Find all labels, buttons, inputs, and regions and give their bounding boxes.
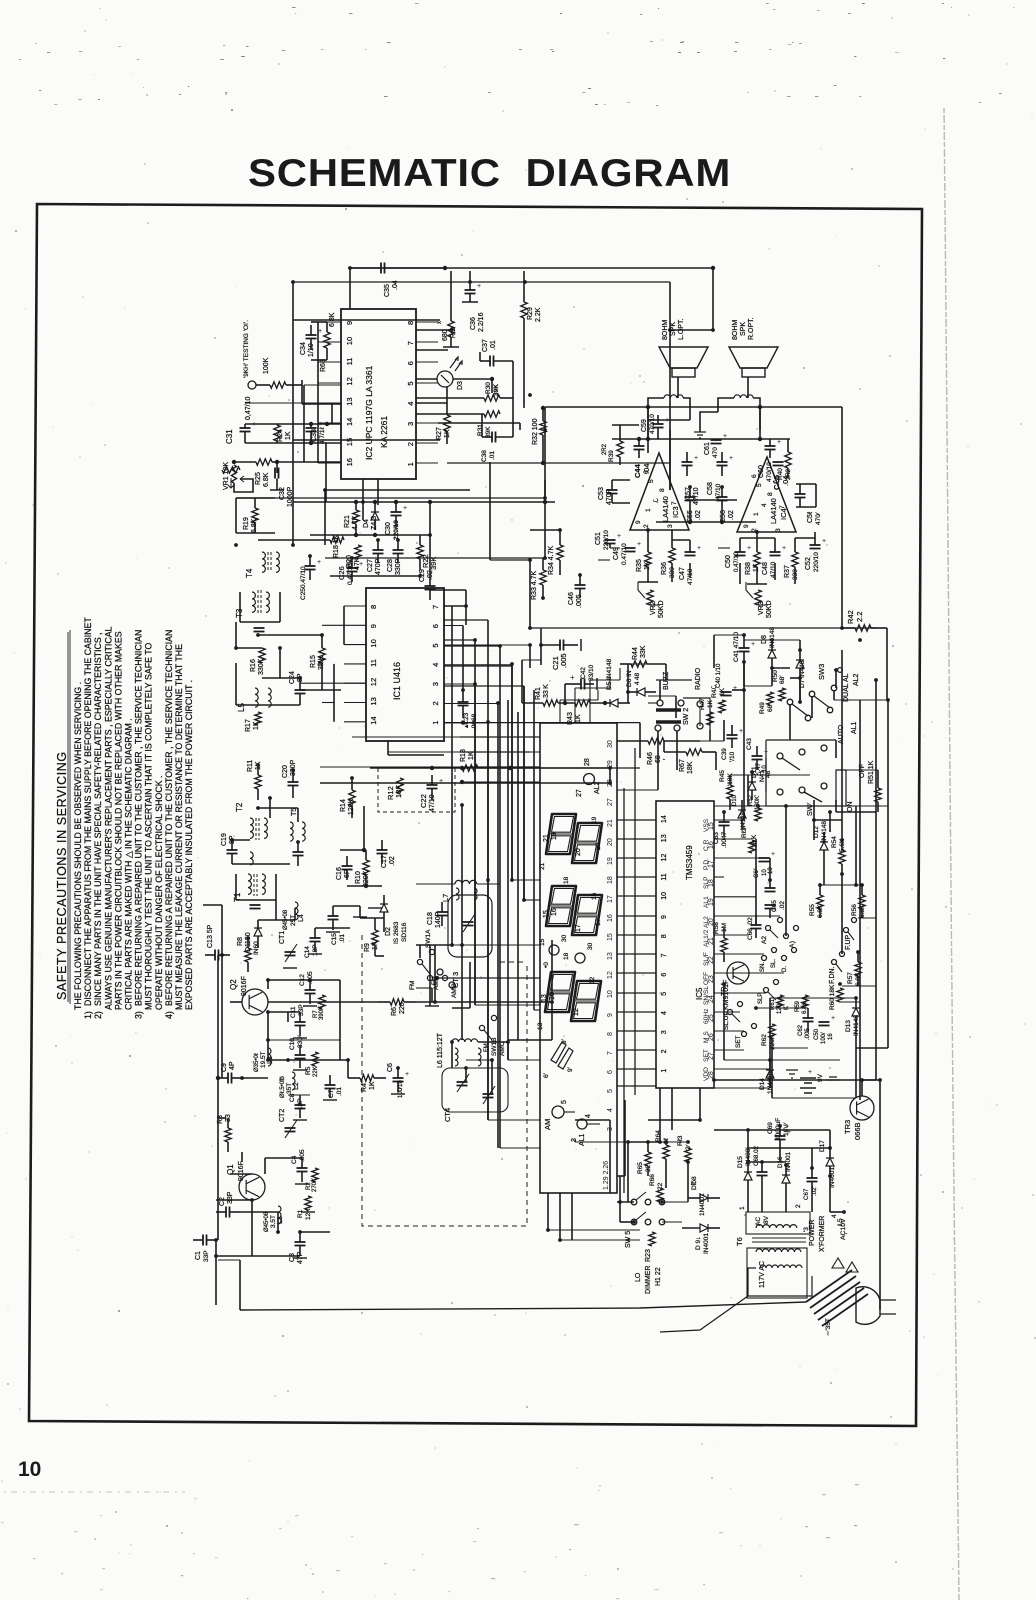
capacitor C69 1000uF <box>775 1135 786 1137</box>
capacitor C13 5P <box>214 950 216 961</box>
svg-text:R13: R13 <box>460 749 467 762</box>
resistor R39 2R2 <box>617 441 623 457</box>
svg-text:R46: R46 <box>647 752 654 765</box>
svg-text:SW3: SW3 <box>817 664 826 680</box>
transistor TR3 066B <box>850 1096 874 1120</box>
wire c41 rail <box>714 634 744 636</box>
svg-text:FM: FM <box>409 981 416 990</box>
resistor R20 47K <box>355 545 361 559</box>
svg-text:ℒ: ℒ <box>652 498 660 503</box>
resistor R16 330K <box>259 648 265 663</box>
svg-text:13: 13 <box>607 952 614 960</box>
resistor R33 4.7K <box>540 570 546 585</box>
svg-text:C60: C60 <box>758 465 765 478</box>
capacitor C36 2.2/16 <box>465 289 476 291</box>
ground speaker return <box>694 432 706 438</box>
capacitor C1 33P <box>202 1235 204 1246</box>
wire left col bottom <box>221 940 223 1078</box>
wire front-end rails <box>293 501 555 503</box>
svg-text:R29: R29 <box>527 307 534 320</box>
resistor R41 33K <box>543 700 558 706</box>
wire clock right mesh <box>714 819 744 821</box>
wire lo dimmer feed <box>619 1176 621 1222</box>
svg-text:.0047: .0047 <box>721 831 728 848</box>
capacitor C54 470P <box>795 493 806 495</box>
svg-text:C16: C16 <box>336 867 343 880</box>
svg-text:330P: 330P <box>290 759 297 776</box>
wire alarm rail top <box>530 627 842 629</box>
svg-text:15: 15 <box>345 438 354 446</box>
svg-text:19.5T: 19.5T <box>260 1051 267 1068</box>
svg-text:18K: 18K <box>394 785 403 798</box>
IC5 box <box>656 801 714 1088</box>
display module box <box>540 723 617 1193</box>
svg-text:3: 3 <box>406 422 415 426</box>
svg-text:14: 14 <box>345 418 354 426</box>
svg-text:R34 4.7K: R34 4.7K <box>548 545 555 575</box>
svg-text:D17: D17 <box>819 1140 826 1152</box>
svg-text:C31: C31 <box>225 429 234 444</box>
svg-text:R64: R64 <box>655 1130 662 1142</box>
svg-text:3): 3) <box>134 1011 144 1019</box>
svg-text:8: 8 <box>661 934 668 938</box>
wire pin5 to D3 <box>416 402 447 404</box>
svg-text:C6: C6 <box>387 1063 394 1072</box>
svg-text:IN4001: IN4001 <box>785 1151 792 1172</box>
svg-text:066B: 066B <box>853 1122 862 1140</box>
svg-text:SW⁄: SW⁄ <box>807 802 814 816</box>
transformer T2 <box>250 818 253 838</box>
svg-text:22: 22 <box>708 956 715 964</box>
resistor R64 22 <box>663 1145 669 1159</box>
resistor R63 22 <box>685 1148 691 1162</box>
7-segment digit pair seconds <box>545 972 575 1012</box>
svg-text:50KD: 50KD <box>658 600 665 618</box>
svg-text:12: 12 <box>573 1008 580 1016</box>
bottom margin dotted scan row <box>4 1491 185 1493</box>
wire amp input couplers <box>610 547 620 549</box>
svg-text:21: 21 <box>539 862 546 870</box>
svg-text:20: 20 <box>595 842 602 850</box>
svg-text:R42: R42 <box>846 610 855 624</box>
svg-text:IC3: IC3 <box>671 506 680 518</box>
svg-text:FM: FM <box>484 1043 490 1052</box>
svg-text:▴C23: ▴C23 <box>463 712 470 728</box>
svg-text:.01: .01 <box>339 934 346 943</box>
colon indicator circles <box>549 945 559 955</box>
svg-text:68: 68 <box>767 704 774 712</box>
svg-text:+: + <box>403 505 407 512</box>
capacitor C27 470P <box>373 549 384 551</box>
capacitor C2 33P <box>225 1207 227 1218</box>
svg-text:R55: R55 <box>809 904 816 916</box>
resistor R46 68 <box>648 738 664 744</box>
svg-text:+: + <box>733 685 737 692</box>
svg-text:470⁄: 470⁄ <box>815 512 822 525</box>
display pin numbers right edge <box>603 740 614 1190</box>
wire crossing horizontals to display <box>352 736 540 738</box>
resistor R24 1K <box>274 425 280 441</box>
svg-text:+: + <box>831 1015 835 1022</box>
svg-text:H1 22: H1 22 <box>655 1267 662 1286</box>
svg-text:8OHM: 8OHM <box>732 320 739 340</box>
svg-text:BEFORE RETURNING A REPAIRED UN: BEFORE RETURNING A REPAIRED UNIT TO THE … <box>164 630 174 1006</box>
svg-text:7: 7 <box>431 605 440 609</box>
wires display to IC5 <box>617 819 656 821</box>
wire D3 connections <box>416 378 437 380</box>
wire bus extra verticals <box>507 700 509 1060</box>
svg-text:ON: ON <box>847 802 854 813</box>
svg-text:EXPOSED PARTS ARE ACCEPTABLY I: EXPOSED PARTS ARE ACCEPTABLY INSULATED F… <box>184 680 194 1010</box>
svg-text:R19: R19 <box>243 517 250 530</box>
svg-text:C58: C58 <box>707 482 714 495</box>
capacitor C35 .04 <box>380 263 382 274</box>
svg-text:26: 26 <box>708 1033 715 1041</box>
resistor R21 4.7K <box>353 510 359 524</box>
svg-text:30: 30 <box>561 934 568 942</box>
potentiometer VR3 50KD <box>755 590 761 605</box>
svg-text:R9: R9 <box>364 943 371 952</box>
svg-text:C36: C36 <box>470 317 477 330</box>
svg-text:D2: D2 <box>385 927 392 936</box>
svg-text:C61: C61 <box>704 442 711 455</box>
svg-text:R10: R10 <box>355 871 362 884</box>
svg-text:F.DN.: F.DN. <box>829 966 836 984</box>
svg-text:18 K: 18 K <box>751 834 758 848</box>
svg-text:C62: C62 <box>798 1024 804 1036</box>
wire bottom bus to display <box>609 1120 611 1193</box>
svg-text:47/10: 47/10 <box>770 561 777 578</box>
wire IC1 left pin stubs <box>344 605 366 607</box>
svg-text:Cℒ5: Cℒ5 <box>772 475 781 490</box>
svg-text:D.: D. <box>782 966 788 972</box>
svg-text:5: 5 <box>756 483 763 487</box>
svg-text:6.8K: 6.8K <box>263 472 270 487</box>
svg-text:R16: R16 <box>250 659 257 672</box>
svg-text:7: 7 <box>779 505 786 509</box>
capacitor C66 .02 <box>751 924 762 926</box>
svg-text:R25: R25 <box>255 472 262 485</box>
resistor R35 1K <box>645 552 651 567</box>
resistor R43 1K <box>575 700 590 706</box>
svg-text:1K: 1K <box>253 721 260 730</box>
switch F.DN <box>832 960 837 965</box>
svg-text:C51: C51 <box>595 532 602 545</box>
diode D6 1N4148 <box>637 688 645 696</box>
svg-text:17: 17 <box>575 924 582 932</box>
svg-text:25: 25 <box>708 1014 715 1022</box>
svg-text:100/: 100/ <box>821 1032 827 1044</box>
svg-text:9: 9 <box>345 321 354 325</box>
svg-text:1K: 1K <box>444 429 451 438</box>
capacitor C50 100/16 <box>819 1021 830 1023</box>
wire display top feeds <box>460 736 540 738</box>
svg-text:220/10: 220/10 <box>603 530 610 550</box>
svg-text:13: 13 <box>537 1022 544 1030</box>
coil L3 19.5T <box>268 1048 271 1066</box>
wire front-end rails vertical <box>339 980 341 1060</box>
resistor R13 1K <box>462 765 478 771</box>
switch A1 <box>784 934 789 939</box>
resistor R57 6.8K <box>855 962 861 976</box>
trimmer CT3 <box>448 895 492 957</box>
wire amp feedback <box>647 567 649 582</box>
svg-text:+: + <box>771 851 775 858</box>
capacitor C50b 0.47/10 <box>735 551 746 553</box>
wire tuning block <box>416 944 452 946</box>
svg-text:12K: 12K <box>305 1208 312 1220</box>
capacitor C11 33P <box>295 1021 306 1023</box>
wire alarm mesh horizontals <box>724 805 842 807</box>
svg-text:R23: R23 <box>645 1249 652 1262</box>
svg-text:14: 14 <box>369 716 378 724</box>
page right edge scan line <box>944 108 959 1600</box>
svg-text:13: 13 <box>369 697 378 705</box>
svg-text:+: + <box>777 439 781 446</box>
svg-text:TR3: TR3 <box>843 1120 852 1134</box>
junction dots pass <box>348 266 352 270</box>
terminal AM dot <box>552 1106 564 1118</box>
capacitor C34 1/10 <box>306 334 317 336</box>
svg-text:3: 3 <box>431 682 440 686</box>
svg-text:0,47/10: 0,47/10 <box>245 397 252 420</box>
svg-text:5: 5 <box>431 643 440 647</box>
svg-text:POWER: POWER <box>809 1220 816 1246</box>
transistor Q2 9016F <box>242 989 268 1015</box>
svg-text:RADIO: RADIO <box>695 667 702 690</box>
svg-text:IN60: IN60 <box>253 941 260 955</box>
capacitor C16 6P <box>342 865 353 867</box>
capacitor C28 330P <box>393 549 404 551</box>
wire sw4 links <box>846 769 878 771</box>
svg-text:R30: R30 <box>485 382 492 394</box>
wire T4 frame <box>235 498 237 533</box>
svg-text:C19: C19 <box>221 833 228 846</box>
svg-text:.005: .005 <box>299 1149 306 1162</box>
svg-text:28: 28 <box>708 1071 715 1079</box>
resistor R32 100 <box>540 421 546 435</box>
wire coil section nets <box>235 622 237 648</box>
svg-text:CT1: CT1 <box>279 931 286 944</box>
svg-text:19: 19 <box>708 898 715 906</box>
diode D18 1N4001 <box>700 1194 708 1202</box>
trimmer CT1 <box>285 951 296 953</box>
svg-text:390K: 390K <box>319 1006 325 1020</box>
diode D7 1N448 <box>796 660 804 668</box>
svg-text:18K: 18K <box>687 761 694 774</box>
svg-text:C30: C30 <box>385 522 392 535</box>
svg-text:4: 4 <box>585 1114 592 1118</box>
diode D1 1N60 <box>254 928 262 936</box>
svg-text:11: 11 <box>369 659 378 667</box>
svg-text:R27: R27 <box>436 427 443 440</box>
svg-text:C63: C63 <box>713 832 720 844</box>
capacitor C46 .005 <box>575 584 586 586</box>
wire bottom bus <box>239 1260 241 1310</box>
svg-text:.005: .005 <box>307 971 314 984</box>
svg-text:C37: C37 <box>482 339 489 352</box>
svg-text:SL.: SL. <box>771 959 777 968</box>
svg-text:R52: R52 <box>748 794 754 806</box>
svg-text:D10′: D10′ <box>732 793 738 806</box>
svg-text:21: 21 <box>607 819 614 827</box>
warning triangles <box>832 1258 858 1272</box>
capacitor C18 140P <box>437 911 448 913</box>
wire IC2 left pin stubs <box>318 321 341 323</box>
svg-text:0.47/10: 0.47/10 <box>621 543 628 565</box>
svg-text:C27: C27 <box>367 559 374 572</box>
svg-text:12: 12 <box>345 377 354 385</box>
primary winding <box>760 1265 802 1268</box>
switch SN SL D <box>762 956 767 961</box>
svg-text:6.8K: 6.8K <box>817 904 824 918</box>
capacitor C59 470/10 <box>653 423 664 425</box>
7-segment digit pair minutes <box>546 886 576 926</box>
svg-text:2): 2) <box>93 1011 103 1019</box>
capacitor C38 .01 <box>491 432 493 443</box>
wire sw5 to transformer <box>662 1201 688 1203</box>
terminal AL1 dot <box>577 1119 587 1129</box>
svg-text:+: + <box>822 538 826 545</box>
svg-text:X'FORMER: X'FORMER <box>819 1216 826 1252</box>
wire front-end ground bars <box>303 1005 317 1007</box>
svg-text:+: + <box>570 673 575 682</box>
switch SW5 contacts a <box>631 1199 637 1205</box>
svg-text:680: 680 <box>442 329 449 341</box>
capacitor T1 tuning <box>250 904 261 906</box>
svg-text:C43: C43 <box>746 738 753 750</box>
wire rectifier outputs <box>747 1190 749 1212</box>
wire display left entries <box>500 1147 540 1149</box>
svg-text:12: 12 <box>661 854 668 862</box>
capacitor C20 330P <box>288 781 299 783</box>
IC1 U416 box <box>366 588 444 741</box>
svg-text:22K⁄: 22K⁄ <box>313 1064 319 1077</box>
svg-text:15: 15 <box>607 933 614 941</box>
svg-text:10: 10 <box>661 892 668 900</box>
wire sw4 wiring <box>813 800 815 820</box>
svg-text:C26: C26 <box>337 566 346 580</box>
svg-text:47K: 47K <box>354 557 361 570</box>
resistor R40 2R2 <box>785 452 791 468</box>
svg-text:1.29 2.26: 1.29 2.26 <box>603 1161 610 1190</box>
svg-text:8OHM: 8OHM <box>662 320 669 340</box>
transformer T4 <box>262 552 265 572</box>
svg-text:DISCONNECT THE APPARATUS FROM: DISCONNECT THE APPARATUS FROM THE MAINS … <box>83 617 93 1006</box>
svg-text:C47: C47 <box>679 567 686 580</box>
svg-text:.01: .01 <box>336 1087 343 1096</box>
svg-text:+: + <box>782 545 786 552</box>
wire main vertical bus right <box>859 700 861 1100</box>
svg-text:T2: T2 <box>235 802 244 812</box>
svg-text:D4: D4 <box>363 519 370 528</box>
svg-text:8: 8 <box>607 1032 614 1036</box>
wire clock bottom exits <box>659 1088 661 1142</box>
wire amp top rail <box>612 438 790 440</box>
svg-text:KA 2261: KA 2261 <box>379 416 389 448</box>
capacitor T3 tuning <box>254 627 265 629</box>
svg-text:330⁄: 330⁄ <box>297 1035 304 1048</box>
svg-text:7: 7 <box>406 341 415 345</box>
svg-text:C38: C38 <box>481 450 488 462</box>
capacitor C60 470/10 <box>765 445 776 447</box>
svg-text:R68: R68 <box>320 359 327 372</box>
svg-text:R31: R31 <box>477 424 484 436</box>
capacitor C51 220/10 <box>605 539 616 541</box>
coil L7 <box>455 880 477 884</box>
resistor R56 6.8K <box>859 895 865 909</box>
svg-text:F.UP: F.UP <box>845 935 852 951</box>
svg-text:3: 3 <box>667 524 674 528</box>
svg-text:CRITICAL PARTS ARE MAKED WITH: CRITICAL PARTS ARE MAKED WITH △ IN THE S… <box>124 718 134 1010</box>
svg-text:100K: 100K <box>263 357 270 374</box>
speaker SPK L <box>659 347 708 368</box>
svg-text:FM: FM <box>432 976 438 985</box>
svg-text:1K: 1K <box>285 431 292 440</box>
wire mid horizontal rails <box>236 497 545 499</box>
svg-text:50KD: 50KD <box>766 600 773 618</box>
svg-text:IC1 U416: IC1 U416 <box>392 662 402 700</box>
capacitor C7 .01 <box>325 1084 336 1086</box>
capacitor C43 47/10 <box>752 755 763 757</box>
op-amp IC3 LA4140 <box>630 453 689 530</box>
svg-text:IN4148: IN4148 <box>769 627 776 648</box>
capacitor C40 1/10 <box>721 691 732 693</box>
svg-text:ALWAYS USE GENUINE MANUFACTURE: ALWAYS USE GENUINE MANUFACTURER'S REPLAC… <box>103 626 113 1010</box>
wire top rail <box>350 267 713 269</box>
svg-text:30: 30 <box>607 740 614 748</box>
svg-text:N4148: N4148 <box>741 812 747 830</box>
svg-text:5: 5 <box>661 992 668 996</box>
svg-text:R37: R37 <box>784 565 791 578</box>
svg-text:22: 22 <box>657 1182 664 1190</box>
svg-text:19: 19 <box>551 832 558 840</box>
coil L6 115:12T <box>452 1039 478 1042</box>
svg-text:12: 12 <box>607 971 614 979</box>
transformer T3 <box>252 592 255 612</box>
svg-text:0.47/10: 0.47/10 <box>734 551 740 572</box>
svg-text:MUST MEASURE THE LEAKAGE CURRE: MUST MEASURE THE LEAKAGE CURRENT OR RESI… <box>174 644 184 1010</box>
resistor R1 12K <box>305 1196 311 1210</box>
svg-text:1/10: 1/10 <box>308 343 315 357</box>
svg-text:SW 5: SW 5 <box>625 1231 632 1248</box>
svg-text:21: 21 <box>543 834 550 842</box>
svg-text:L7: L7 <box>441 894 450 902</box>
svg-text:AL1: AL1 <box>851 721 858 734</box>
resistor R2 270K <box>312 1168 318 1182</box>
capacitor C65b .04 <box>773 461 784 463</box>
svg-text:SCHEMATIC DIAGRAM: SCHEMATIC DIAGRAM <box>248 150 731 194</box>
wire mid harness verticals <box>451 606 453 945</box>
wire test point drop <box>301 380 303 404</box>
svg-text:18: 18 <box>563 952 570 960</box>
svg-text:+: + <box>317 559 321 566</box>
resistor R60 18K <box>837 988 843 1002</box>
wire 9v to vdd <box>714 1087 770 1089</box>
svg-text:R67: R67 <box>679 759 686 772</box>
wire f.up net <box>820 884 862 886</box>
svg-text:27: 27 <box>607 798 614 806</box>
resistor R53 18K <box>749 840 755 853</box>
svg-text:1K: 1K <box>369 1081 376 1090</box>
svg-text:5: 5 <box>406 381 415 385</box>
svg-text:+: + <box>747 545 751 552</box>
svg-text:R44: R44 <box>632 647 639 660</box>
svg-text:R15: R15 <box>310 655 317 668</box>
svg-text:R54: R54 <box>831 836 838 848</box>
svg-text:+: + <box>617 533 621 540</box>
svg-text:L5: L5 <box>237 703 246 712</box>
